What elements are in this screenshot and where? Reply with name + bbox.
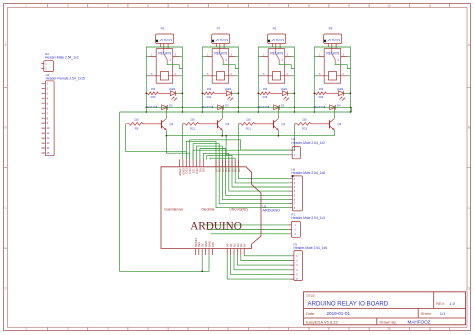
wire coil left to column P6 (146, 75, 149, 77)
svg-text:+5 TO P1: +5 TO P1 (271, 38, 284, 42)
header H1 pins (289, 150, 292, 155)
wire P1 pin1 (204, 224, 289, 226)
junction right column diode row P8 (350, 106, 352, 108)
header H2 body (292, 176, 302, 211)
junction left column LED row P5 (257, 92, 259, 94)
connector P6 pin1 marker (156, 40, 158, 42)
svg-text:150: 150 (151, 87, 156, 91)
arduino U5 module body (161, 167, 261, 249)
svg-text:D8: D8 (202, 168, 206, 172)
title block frame (304, 292, 466, 325)
connector P7 pin1 marker (212, 40, 214, 42)
relay RELAY5 contact pins (150, 56, 180, 58)
junction right column diode row P7 (238, 106, 240, 108)
svg-text:VIN: VIN (211, 242, 215, 247)
header H2 pins 1-8 (290, 179, 293, 208)
relay RELAY5 coil pins (150, 75, 180, 77)
connector P8 pin stubs (328, 44, 336, 49)
svg-text:Q4: Q4 (337, 122, 341, 126)
svg-text:R20: R20 (151, 95, 156, 99)
resistor R11 220 (239, 123, 274, 125)
wire aux link2 (210, 158, 235, 159)
svg-text:7: 7 (268, 4, 270, 8)
svg-text:Header-Male 2.54_1x2: Header-Male 2.54_1x2 (45, 56, 79, 60)
wire base R21 drop (182, 124, 184, 160)
arduino U5 top pins group1 (180, 160, 204, 167)
header H3 body (44, 61, 54, 72)
junction +5 rail P5 left (257, 111, 259, 113)
wire coil right to column P7 (235, 75, 238, 77)
header H2 pin1 marker (292, 175, 294, 177)
svg-text:B: B (5, 126, 7, 130)
svg-text:1: 1 (25, 4, 27, 8)
wire contact pin1 to left column P7 (202, 56, 205, 58)
wire gnd extension to D12 (166, 136, 189, 160)
diode D3 1N4448 (218, 105, 224, 110)
junction left column LED row P8 (313, 92, 315, 94)
relay RELAY5 contact arm (276, 49, 279, 63)
wire relay arm to right column P6 (167, 62, 182, 68)
connector P8 body (324, 34, 342, 44)
arduino U5 top pins group2 (216, 160, 238, 167)
wire LED cathode to column LED1 (288, 92, 295, 94)
wire left column to +5 rail P8 (313, 107, 315, 112)
svg-text:LED3: LED3 (225, 87, 232, 91)
wire D6 to H2 pin7 (219, 160, 289, 204)
wire base R9 to D13 (126, 124, 187, 160)
wire contact pin3 to right column P5 (291, 56, 294, 58)
svg-text:LED2: LED2 (169, 87, 176, 91)
svg-text:Header-Female 2.54_1x15: Header-Female 2.54_1x15 (46, 76, 85, 80)
wire right column to +5 rail P8 (349, 107, 351, 112)
wire emitter Q1 to gnd rail (277, 130, 279, 136)
header H3 pins 1-2 (41, 64, 44, 69)
wire P1 pin3 (211, 233, 289, 235)
transistor Q1 (273, 120, 275, 128)
header H1 body (292, 147, 300, 159)
header H4 body (45, 81, 54, 156)
wire D9 link (200, 149, 226, 160)
arduino U5 bottom pins group3 (195, 249, 212, 256)
svg-text:Date:: Date: (306, 312, 315, 316)
svg-text:ARDUINO RELAY IO BOARD: ARDUINO RELAY IO BOARD (308, 301, 389, 308)
wire contact pin3 to right column P7 (235, 56, 238, 58)
wire emitter Q3 to gnd rail (221, 130, 223, 136)
wire D4 to H2 pin5 (226, 160, 290, 196)
wire left column to +5 rail P5 (257, 107, 259, 112)
svg-text:9: 9 (348, 327, 350, 331)
wire emitter Q2 to gnd rail (165, 130, 167, 136)
wire LED cathode to column LED4 (344, 92, 351, 94)
relay RELAY5 contact pins (318, 56, 348, 58)
relay K RELAY5 body (212, 49, 229, 84)
wire +12 loop around relay P8 (314, 47, 350, 107)
connector P8 pin1 marker (324, 40, 326, 42)
wire relay arm to right column P7 (223, 62, 238, 68)
junction left column diode row P7 (201, 106, 203, 108)
wire left vertical 5V feed (120, 112, 209, 271)
transistor Q3 (217, 120, 219, 128)
svg-text:D3: D3 (225, 103, 229, 107)
junction left column LED row P6 (145, 92, 147, 94)
wire A3 to P2 pin3 (237, 255, 290, 265)
wire D10 link (197, 146, 223, 159)
resistor R16 150 (258, 92, 282, 94)
svg-text:7: 7 (268, 327, 270, 331)
junction +5 rail P8 left (313, 111, 315, 113)
wire emitter Q4 to gnd rail (333, 130, 335, 136)
junction right column LED row P8 (350, 92, 352, 94)
wire A1 to P2 pin5 (231, 255, 291, 274)
connector P7 body (212, 34, 230, 44)
wire aux link1 (207, 156, 232, 160)
wire collector Q3 to diode row (221, 107, 223, 118)
wire coil right to column P5 (291, 75, 294, 77)
junction gnd rail H1 pin2 (225, 135, 227, 137)
wire collector Q4 to diode row (333, 107, 335, 118)
LED LED2 (170, 91, 175, 96)
svg-text:R22: R22 (207, 95, 212, 99)
wire collector Q1 to diode row (277, 107, 279, 118)
wire A5 to P2 pin1 (244, 254, 290, 257)
svg-text:D1: D1 (281, 103, 285, 107)
svg-text:R11: R11 (246, 127, 251, 131)
wire 5V pin drop (201, 255, 203, 271)
svg-text:1.0: 1.0 (449, 301, 455, 306)
wire D11 link (193, 144, 219, 160)
svg-text:6: 6 (227, 4, 229, 8)
header P2 pins 1-6 (291, 256, 294, 279)
junction +5 rail P7 right (238, 111, 240, 113)
svg-text:P6: P6 (161, 27, 165, 31)
wire coil left to column P8 (314, 75, 317, 77)
svg-text:Q2: Q2 (169, 122, 173, 126)
svg-text:220: 220 (190, 118, 195, 122)
svg-text:Duemilanove: Duemilanove (165, 208, 184, 212)
svg-text:150: 150 (319, 87, 324, 91)
svg-text:Header-Male 2.54_1x2: Header-Male 2.54_1x2 (291, 141, 325, 145)
wire P1 pin2 (207, 229, 288, 231)
svg-text:B: B (468, 126, 470, 130)
junction left column diode row P5 (257, 106, 259, 108)
connector P6 body (156, 34, 174, 44)
svg-text:220: 220 (134, 118, 139, 122)
wire right column to +5 rail P6 (181, 107, 183, 112)
wire coil right to column P6 (179, 75, 182, 77)
svg-text:11: 11 (428, 4, 432, 8)
svg-text:ARDUINO: ARDUINO (263, 208, 281, 212)
junction +5 rail P6 left (145, 111, 147, 113)
svg-text:1: 1 (25, 327, 27, 331)
connector P6 pin stubs (160, 44, 168, 49)
svg-text:P8: P8 (329, 27, 333, 31)
header P1 pins 1-3 (289, 225, 292, 234)
svg-text:220: 220 (302, 118, 307, 122)
junction right column LED row P5 (294, 92, 296, 94)
wire LED cathode to column LED3 (232, 92, 239, 94)
wire A2 to P2 pin4 (234, 255, 291, 270)
svg-text:11: 11 (428, 327, 432, 331)
wire left column to +5 rail P7 (201, 107, 203, 112)
svg-text:3: 3 (107, 4, 109, 8)
svg-text:Header-Male 2.54_1x8: Header-Male 2.54_1x8 (291, 171, 325, 175)
connector P7 pin stubs (216, 44, 224, 49)
relay K RELAY5 body (324, 49, 341, 84)
resistor R9 220 (127, 123, 162, 125)
junction collector Q1 diode row (278, 106, 280, 108)
svg-text:TITLE:: TITLE: (306, 294, 316, 298)
svg-text:6: 6 (227, 327, 229, 331)
svg-text:MAHFOOZ: MAHFOOZ (408, 319, 431, 324)
relay RELAY5 contact arm (220, 49, 223, 63)
svg-text:LED1: LED1 (281, 87, 288, 91)
svg-text:R9: R9 (135, 127, 139, 131)
svg-text:Header-Male 2.54_1x6: Header-Male 2.54_1x6 (294, 246, 328, 250)
svg-text:Header-Male 2.54_1x3: Header-Male 2.54_1x3 (291, 216, 325, 220)
wire contact pin1 to left column P5 (258, 56, 261, 58)
svg-text:150: 150 (263, 87, 268, 91)
wire D5 to H2 pin6 (222, 160, 289, 200)
relay RELAY5 coil pins (262, 75, 292, 77)
svg-text:9: 9 (348, 4, 350, 8)
resistor R21 220 (183, 123, 218, 125)
transistor Q2 (161, 120, 163, 128)
svg-text:REV:: REV: (436, 302, 445, 306)
svg-text:R16: R16 (263, 95, 268, 99)
wire D2 to H2 pin3 (232, 160, 290, 188)
svg-text:R23: R23 (302, 127, 307, 131)
relay RELAY5 coil (273, 72, 281, 81)
svg-text:+5 TO P1: +5 TO P1 (159, 38, 172, 42)
relay RELAY5 coil (161, 72, 169, 81)
svg-text:Diecimila: Diecimila (202, 208, 215, 212)
junction collector Q3 diode row (222, 106, 224, 108)
diode D4 1N4448 (330, 105, 336, 110)
wire A4 to P2 pin2 (241, 255, 291, 261)
svg-text:4: 4 (147, 4, 149, 8)
junction left column diode row P6 (145, 106, 147, 108)
svg-text:R21: R21 (190, 127, 195, 131)
wire right column to +5 rail P7 (237, 107, 239, 112)
svg-text:1/1: 1/1 (440, 311, 446, 316)
svg-text:D0: D0 (237, 168, 241, 172)
wire coil left to column P5 (258, 75, 261, 77)
wire right column to +5 rail P5 (293, 107, 295, 112)
wire base R11 drop (239, 124, 290, 179)
svg-text:5: 5 (187, 327, 189, 331)
svg-text:UNO R3(R2): UNO R3(R2) (230, 208, 248, 212)
junction gnd rail Q3 (222, 135, 224, 137)
wire gnd rail (166, 135, 334, 137)
svg-text:+5 TO P1: +5 TO P1 (215, 38, 228, 42)
wire coil left to column P7 (202, 75, 205, 77)
LED LED4 (338, 91, 343, 96)
relay K RELAY5 body (268, 49, 285, 84)
svg-text:8: 8 (308, 327, 310, 331)
svg-text:A5: A5 (243, 243, 247, 247)
wire relay arm to right column P5 (279, 62, 294, 68)
junction left column LED row P7 (201, 92, 203, 94)
relay RELAY5 contact arm (332, 49, 335, 63)
wire H1 pin1 feed (190, 140, 290, 160)
svg-text:ARDUINO: ARDUINO (190, 221, 242, 233)
junction +5 rail P6 right (182, 111, 184, 113)
svg-text:5: 5 (187, 4, 189, 8)
relay RELAY5 coil pins (206, 75, 236, 77)
wire +5 rail (120, 111, 352, 113)
wire +12 loop around relay P5 (258, 47, 294, 107)
svg-text:2: 2 (67, 327, 69, 331)
relay RELAY5 coil (329, 72, 337, 81)
junction gnd rail Q2 (166, 135, 168, 137)
wire H1 pin2 to gnd rail (226, 136, 289, 155)
wire coil right to column P8 (347, 75, 350, 77)
wire base R23 to D11 (193, 124, 294, 160)
connector P5 pin stubs (272, 44, 280, 49)
svg-text:P7: P7 (217, 27, 221, 31)
wire left column to +5 rail P6 (145, 107, 147, 112)
header P1 body (291, 221, 300, 237)
svg-text:8: 8 (308, 4, 310, 8)
svg-text:Q3: Q3 (225, 122, 229, 126)
junction 5V drop on bottom feed (201, 270, 203, 272)
wire contact pin1 to left column P8 (314, 56, 317, 58)
svg-text:D4: D4 (337, 103, 341, 107)
wire D8 link (203, 153, 229, 159)
wire collector Q2 to diode row (165, 107, 167, 118)
relay RELAY5 contact pins (262, 56, 292, 58)
junction collector Q4 diode row (334, 106, 336, 108)
relay RELAY5 contact arm (164, 49, 167, 63)
svg-text:150: 150 (207, 87, 212, 91)
wire D13 link (186, 141, 216, 159)
wire diode row rail (146, 107, 351, 112)
resistor R24 150 (314, 92, 338, 94)
svg-text:R24: R24 (319, 95, 324, 99)
relay RELAY5 contact pins (206, 56, 236, 58)
resistor R20 150 (146, 92, 170, 94)
svg-text:220: 220 (246, 118, 251, 122)
connector P5 pin1 marker (268, 40, 270, 42)
junction right column diode row P5 (294, 106, 296, 108)
wire +12 loop around relay P7 (202, 47, 238, 107)
svg-text:2019-01-01: 2019-01-01 (327, 311, 351, 316)
diode D1 1N4448 (274, 105, 280, 110)
svg-text:LED4: LED4 (337, 87, 344, 91)
svg-text:Drawn By:: Drawn By: (380, 320, 398, 324)
wire relay arm to right column P8 (335, 62, 350, 68)
junction right column diode row P6 (182, 106, 184, 108)
arduino U5 bottom pins group4 (227, 249, 244, 256)
LED LED3 (226, 91, 231, 96)
svg-text:+5 TO P1: +5 TO P1 (327, 38, 340, 42)
junction +5 rail P5 right (294, 111, 296, 113)
relay RELAY5 coil (217, 72, 225, 81)
svg-text:4: 4 (147, 327, 149, 331)
wire contact pin3 to right column P6 (179, 56, 182, 58)
svg-text:3: 3 (107, 327, 109, 331)
resistor R22 150 (202, 92, 226, 94)
border row ticks left/right (4, 87, 471, 248)
diode D2 1N4448 (162, 105, 168, 110)
junction right column LED row P6 (182, 92, 184, 94)
junction gnd rail Q1 (278, 135, 280, 137)
connector P5 body (268, 34, 286, 44)
svg-text:P5: P5 (273, 27, 277, 31)
svg-text:10: 10 (387, 4, 391, 8)
header P2 body (294, 251, 303, 281)
wire +12 loop around relay P6 (146, 47, 182, 107)
resistor R23 220 (295, 123, 330, 125)
wire D7 to H2 pin8 (216, 160, 290, 208)
junction +5 rail P7 left (201, 111, 203, 113)
wire contact pin1 to left column P6 (146, 56, 149, 58)
LED LED1 (282, 91, 287, 96)
svg-text:Q1: Q1 (281, 122, 285, 126)
transistor Q4 (329, 120, 331, 128)
wire D1 to H2 pin2 (235, 160, 289, 183)
junction collector Q2 diode row (166, 106, 168, 108)
svg-text:2: 2 (67, 4, 69, 8)
wire A0 to P2 pin6 (227, 255, 290, 279)
header H4 pins 1-15 (42, 83, 46, 153)
relay RELAY5 coil pins (318, 75, 348, 77)
svg-text:EasyEDA V5.8.22: EasyEDA V5.8.22 (306, 319, 339, 324)
svg-text:D2: D2 (169, 103, 173, 107)
relay K RELAY5 body (156, 49, 173, 84)
wire contact pin3 to right column P8 (347, 56, 350, 58)
svg-text:Sheet:: Sheet: (421, 312, 432, 316)
wire D3 to H2 pin4 (229, 160, 290, 192)
junction left column diode row P8 (313, 106, 315, 108)
svg-text:10: 10 (387, 327, 391, 331)
junction +5 rail P8 right (350, 111, 352, 113)
junction right column LED row P7 (238, 92, 240, 94)
wire LED cathode to column LED2 (176, 92, 183, 94)
